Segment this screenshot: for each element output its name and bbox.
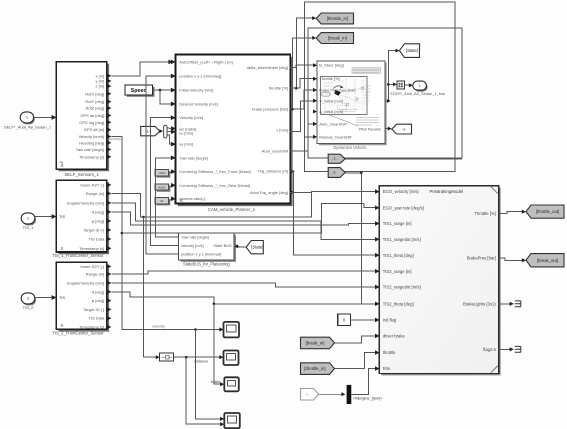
- wire inport3 to TIS_2: [35, 297, 53, 300]
- svg-text:θ [deg]: θ [deg]: [92, 209, 104, 214]
- wire StateBUS yaw to planner yaw: [155, 158, 178, 237]
- svg-text:TIS: TIS: [59, 295, 65, 300]
- svg-text:v [m/s]: v [m/s]: [276, 128, 288, 133]
- from tag -T- lower: [328, 168, 345, 178]
- wire from -T- lower with branch down: [345, 172, 361, 174]
- svg-text:-1-: -1-: [305, 393, 310, 397]
- wire throttle_in to throttle: [335, 353, 376, 369]
- svg-text:1: 1: [26, 116, 28, 120]
- wire brake pressure to brake Pressure and break_in goto: [290, 38, 313, 109]
- wire inport1 to SELF sensor: [34, 116, 53, 118]
- svg-text:[break_in]: [break_in]: [306, 341, 325, 346]
- svg-text:Velocity [m/s]: Velocity [m/s]: [179, 115, 203, 120]
- wire const rear to port: [169, 186, 171, 187]
- block Speed constant: [127, 87, 155, 97]
- svg-text:GPS lat [deg]: GPS lat [deg]: [80, 113, 104, 118]
- svg-text:Timestamp [s]: Timestamp [s]: [79, 325, 104, 330]
- svg-text:Cornering Stiffness_*_/rev_Rea: Cornering Stiffness_*_/rev_Rear [N/rad]: [179, 183, 250, 188]
- wire const front to port: [169, 171, 171, 174]
- svg-text:STATE_Audi_A8_Sedan_1_bus: STATE_Audi_A8_Sedan_1_bus: [390, 91, 445, 96]
- svg-text:TIS1_rangedot [m/s]: TIS1_rangedot [m/s]: [383, 237, 421, 242]
- svg-text:AutoOffset_(Left+ / Right-) [m: AutoOffset_(Left+ / Right-) [m]: [179, 59, 232, 64]
- svg-text:Heading [deg]: Heading [deg]: [79, 140, 104, 145]
- from tag -1- engine bus: [301, 389, 319, 401]
- svg-text:EGO_yaw rate [deg/s]: EGO_yaw rate [deg/s]: [383, 205, 424, 210]
- inport 1 SELF_Audi_A8_Sedan_1: [21, 113, 34, 124]
- wire demux to wz: [167, 127, 172, 130]
- wire TIS2 doppler: [111, 283, 375, 287]
- block TIS_2 sensor: [59, 265, 110, 332]
- scope combined: [224, 413, 240, 428]
- wire demux to vy: [167, 135, 172, 144]
- goto tag throttle_in: [316, 13, 353, 24]
- block TIS_1 sensor: [59, 182, 110, 254]
- from tag break_in bottom: [301, 337, 335, 349]
- svg-text:φ [deg]: φ [deg]: [92, 298, 105, 303]
- svg-text:ActorTraj_angle [deg]: ActorTraj_angle [deg]: [250, 190, 288, 195]
- svg-text:TIS2_rangedot [m/s]: TIS2_rangedot [m/s]: [383, 285, 421, 290]
- block SELF ground-truth sensor: [59, 64, 110, 172]
- wire BrakePres out: [499, 258, 523, 260]
- wire TIS2 range: [111, 271, 375, 274]
- svg-text:θ [deg]: θ [deg]: [92, 289, 104, 294]
- from tag -T- upper: [328, 154, 345, 163]
- wire const gamma to port: [169, 200, 171, 201]
- svg-text:beam RZY [-]: beam RZY [-]: [80, 182, 104, 187]
- svg-text:[State]: [State]: [406, 48, 418, 53]
- selector block: [160, 353, 174, 361]
- svg-text:1: 1: [419, 84, 421, 88]
- svg-text:Range [m]: Range [m]: [86, 272, 104, 277]
- wire ActorTraj angle out: [290, 191, 311, 193]
- wire conversion to outport: [404, 84, 409, 86]
- svg-text:position x y z [m/m/rad]: position x y z [m/m/rad]: [181, 252, 221, 257]
- svg-text:Yaw rate [deg/s]: Yaw rate [deg/s]: [76, 147, 105, 152]
- svg-text:-T-: -T-: [332, 156, 338, 161]
- constant cornering stiffness front: [157, 171, 171, 177]
- wire dynamics output to State goto and outport: [385, 51, 396, 101]
- svg-text:DopplerVelocity [m/s]: DopplerVelocity [m/s]: [67, 281, 105, 286]
- constant gamma ratio: [157, 199, 171, 205]
- svg-text:TIS: TIS: [59, 214, 65, 219]
- terminator BrakeLights: [515, 301, 521, 307]
- svg-text:position x y z [m/m/deg]: position x y z [m/m/deg]: [179, 74, 221, 79]
- svg-text:ind flag: ind flag: [383, 318, 397, 323]
- svg-text:-T-: -T-: [332, 170, 338, 175]
- svg-text:S: S: [180, 198, 183, 203]
- from tag State (flipped): [246, 241, 263, 254]
- svg-text:Timestamp [s]: Timestamp [s]: [79, 246, 104, 251]
- svg-text:[throttle_out]: [throttle_out]: [536, 209, 559, 214]
- wire Manual_GearShift stub: [304, 136, 313, 138]
- wire Traj_distance to TIS1_theta: [290, 171, 375, 255]
- svg-text:TIS_2_FrontCenter_Sensor: TIS_2_FrontCenter_Sensor: [52, 331, 104, 336]
- block CAM vehicle planner: [178, 57, 293, 206]
- svg-text:S: S: [61, 246, 64, 251]
- svg-text:Yaw rate [deg/s]: Yaw rate [deg/s]: [179, 155, 208, 160]
- svg-text:GPS alt [m]: GPS alt [m]: [84, 127, 104, 132]
- constant 0: [338, 314, 351, 326]
- svg-text:BrakePres [bar]: BrakePres [bar]: [467, 256, 496, 261]
- svg-text:SELF*_Audi_A8_Sedan_1: SELF*_Audi_A8_Sedan_1: [4, 124, 52, 129]
- svg-text:Traj_distance [m]: Traj_distance [m]: [257, 169, 288, 174]
- svg-text:EGO_velocity [m/s]: EGO_velocity [m/s]: [383, 189, 419, 194]
- svg-text:Speed: Speed: [131, 88, 147, 94]
- wire from -T- upper: [345, 158, 462, 160]
- constant cornering stiffness rear: [157, 186, 171, 192]
- wire bus selector to rpm port: [351, 369, 375, 395]
- wire TIS1 theta to TIS1_range: [111, 212, 375, 225]
- wire StateBUS position to planner position: [146, 76, 179, 254]
- svg-text:DopplerVelocity [m/s]: DopplerVelocity [m/s]: [67, 200, 105, 205]
- wire flag2.6 to terminator: [499, 348, 511, 350]
- scope velocity: [224, 322, 240, 338]
- wire BrakeLights to terminator: [499, 303, 511, 305]
- demux: [164, 125, 167, 138]
- wire from tag to bus selector: [319, 393, 342, 395]
- goto tag throttle_out: [526, 205, 564, 218]
- svg-text:vx [m/s]: vx [m/s]: [179, 131, 193, 136]
- signal conversion block: [397, 81, 404, 89]
- wire TIS1 doppler to TIS1_rangedot: [111, 203, 375, 239]
- block Dynamics Vehicle: [319, 63, 387, 145]
- svg-text:Timestamp [s]: Timestamp [s]: [79, 154, 104, 159]
- svg-text:20: 20: [160, 199, 163, 203]
- svg-text:brake Pressure [bar]: brake Pressure [bar]: [319, 88, 355, 93]
- wire Auto_GearShift: [290, 124, 313, 151]
- svg-text:<NEngine_[rpm]>: <NEngine_[rpm]>: [353, 397, 384, 401]
- wire State from-tag to StateBUS: [239, 245, 247, 248]
- svg-text:[break_out]: [break_out]: [537, 258, 558, 263]
- svg-text:TIS2_theta [deg]: TIS2_theta [deg]: [383, 301, 414, 306]
- wire Throttle out: [499, 212, 523, 214]
- svg-text:[throttle_in]: [throttle_in]: [304, 366, 325, 371]
- svg-text:gamma ratio[-]: gamma ratio[-]: [179, 196, 205, 201]
- svg-text:velocity [m/s]: velocity [m/s]: [181, 243, 203, 248]
- svg-text:[State]: [State]: [251, 245, 263, 250]
- wire Speed branch to Desired Velocity: [159, 89, 162, 92]
- svg-text:Dynamics Vehicle: Dynamics Vehicle: [333, 145, 367, 150]
- wire TIS1 Range to EGO_velocity: [111, 192, 375, 217]
- svg-text:Velocity [km/h]: Velocity [km/h]: [78, 134, 104, 139]
- svg-text:BrakeLights (3x1): BrakeLights (3x1): [463, 301, 496, 306]
- svg-text:SELF_Sensors_1: SELF_Sensors_1: [64, 172, 99, 177]
- wire break_in to driver brake: [335, 336, 376, 343]
- scope distance: [224, 351, 239, 366]
- svg-text:Target ID [-]: Target ID [-]: [83, 228, 104, 233]
- wire delta_steer to B_Steer: [290, 65, 313, 67]
- bus selector bar: [347, 385, 352, 404]
- svg-text:S: S: [61, 323, 64, 328]
- wire range branch to selector: [142, 216, 145, 219]
- goto tag State: [400, 44, 420, 58]
- svg-text:2: 2: [27, 217, 29, 221]
- svg-text:TIS_1: TIS_1: [23, 225, 34, 230]
- svg-text:72000: 72000: [158, 171, 166, 175]
- svg-text:driver brake: driver brake: [383, 334, 406, 339]
- svg-text:State BUS: State BUS: [213, 243, 232, 248]
- svg-text:Manual_GearShift: Manual_GearShift: [319, 134, 352, 139]
- wire TIS2 theta: [111, 292, 375, 304]
- svg-text:Throttle [%]: Throttle [%]: [474, 211, 495, 216]
- annotation area rectangle B (top right inner): [308, 28, 462, 158]
- svg-text:Initial Velocity [m/s]: Initial Velocity [m/s]: [179, 88, 213, 93]
- wire from tag to demux: [160, 130, 161, 132]
- svg-text:Auto_GearShift: Auto_GearShift: [319, 121, 347, 126]
- svg-text:Yaw rate [deg/s]: Yaw rate [deg/s]: [181, 235, 209, 240]
- goto tag -1- pilot params: [385, 128, 389, 130]
- svg-text:throttle: throttle: [383, 350, 396, 355]
- svg-text:Range [m]: Range [m]: [86, 191, 104, 196]
- svg-text:velocity: velocity: [109, 137, 121, 141]
- wire v to V_initial: [290, 101, 313, 132]
- svg-text:RotY [deg]: RotY [deg]: [85, 99, 104, 104]
- svg-text:GPS lng [deg]: GPS lng [deg]: [79, 120, 104, 125]
- wire StateBUS velocity to planner velocity: [151, 118, 179, 246]
- svg-text:distance: distance: [194, 360, 208, 364]
- svg-text:3: 3: [27, 297, 29, 301]
- wire Speed to Initial Velocity: [153, 89, 173, 91]
- svg-text:[throttle_in]: [throttle_in]: [327, 16, 348, 21]
- terminator flag: [515, 346, 521, 352]
- svg-text:delta_steer/wheel [deg]: delta_steer/wheel [deg]: [247, 65, 288, 70]
- wire demux to vx: [167, 131, 172, 133]
- goto tag break_in: [316, 33, 353, 44]
- svg-text:[break_in]: [break_in]: [328, 36, 347, 41]
- block PreBrakingModel: [381, 188, 500, 376]
- svg-text:brake: brake: [211, 380, 221, 384]
- svg-text:velocity: velocity: [152, 325, 165, 329]
- svg-text:RotZ [deg]: RotZ [deg]: [86, 106, 105, 111]
- svg-text:TIS Data: TIS Data: [88, 316, 105, 321]
- wire velocity branch to scope4: [194, 328, 197, 331]
- inport 2 TIS_1: [22, 214, 36, 225]
- svg-text:RotX [deg]: RotX [deg]: [85, 91, 104, 96]
- svg-text:TIS1_theta [deg]: TIS1_theta [deg]: [383, 253, 414, 258]
- svg-text:φ [deg]: φ [deg]: [92, 219, 105, 224]
- annotation area rectangle A (top right): [304, 2, 455, 172]
- block StateBUS for platooning: [181, 235, 236, 262]
- svg-text:TIS_1_FrontCenter_Sensor: TIS_1_FrontCenter_Sensor: [52, 253, 104, 258]
- wire throttle to Throttle and throttle_in goto: [290, 18, 313, 88]
- Dynamics Vehicle icon image: [352, 68, 381, 73]
- svg-text:beam RZY [-]: beam RZY [-]: [80, 264, 104, 269]
- wire velocity down to scope and EGO_yaw branch: [111, 137, 220, 330]
- svg-text:V_initial [m/s]: V_initial [m/s]: [319, 98, 343, 103]
- svg-text:TIS Data: TIS Data: [88, 237, 105, 242]
- from tag -1- state vector: [141, 126, 160, 135]
- svg-text:TIS_2: TIS_2: [23, 305, 34, 310]
- svg-text:B_Steer [deg]: B_Steer [deg]: [319, 63, 343, 68]
- svg-text:TIS1_range [m]: TIS1_range [m]: [383, 221, 412, 226]
- svg-text:Pilot Params: Pilot Params: [359, 127, 381, 132]
- svg-text:throttle [%]: throttle [%]: [269, 86, 288, 91]
- svg-text:R/m: R/m: [383, 366, 391, 371]
- svg-text:Target ID [-]: Target ID [-]: [83, 307, 104, 312]
- svg-text:A_initial [m/s]: A_initial [m/s]: [319, 109, 343, 114]
- svg-text:TIS2_range [m]: TIS2_range [m]: [383, 269, 412, 274]
- svg-text:CAM_vehicle_Planner_1: CAM_vehicle_Planner_1: [208, 207, 256, 212]
- svg-text:40000: 40000: [158, 185, 166, 189]
- svg-text:Desired Velocity [m/s]: Desired Velocity [m/s]: [179, 101, 217, 106]
- svg-text:PreBrakingModel: PreBrakingModel: [430, 189, 464, 194]
- wire selector to scope distance: [174, 356, 221, 358]
- wire constant 0 to ind flag: [351, 319, 376, 321]
- svg-text:brake pressure [bar]: brake pressure [bar]: [252, 107, 288, 112]
- svg-text:-1-: -1-: [402, 127, 407, 132]
- svg-text:flag2.6: flag2.6: [483, 347, 496, 352]
- svg-text:z [m]: z [m]: [96, 84, 105, 89]
- scope brake: [224, 377, 239, 391]
- wire distance branch to scope4: [185, 356, 188, 359]
- svg-text:StateBUS_for_Platooning: StateBUS_for_Platooning: [183, 261, 230, 266]
- svg-text:vy [m/s]: vy [m/s]: [179, 142, 193, 147]
- svg-text:Throttle [%]: Throttle [%]: [319, 76, 339, 81]
- outport 1 STATE bus: [414, 83, 428, 92]
- wire inport2 to TIS_1: [35, 217, 53, 219]
- svg-text:Auto_GearShif: Auto_GearShif: [262, 149, 289, 154]
- goto tag break_out: [526, 254, 564, 267]
- from tag throttle_in bottom: [301, 363, 335, 375]
- inport 3 TIS_2: [22, 294, 36, 305]
- svg-text:Cornering Stiffness_*_/rev_Fro: Cornering Stiffness_*_/rev_Front [N/rad]: [179, 169, 250, 174]
- wire x to AutoOffset: [111, 62, 169, 76]
